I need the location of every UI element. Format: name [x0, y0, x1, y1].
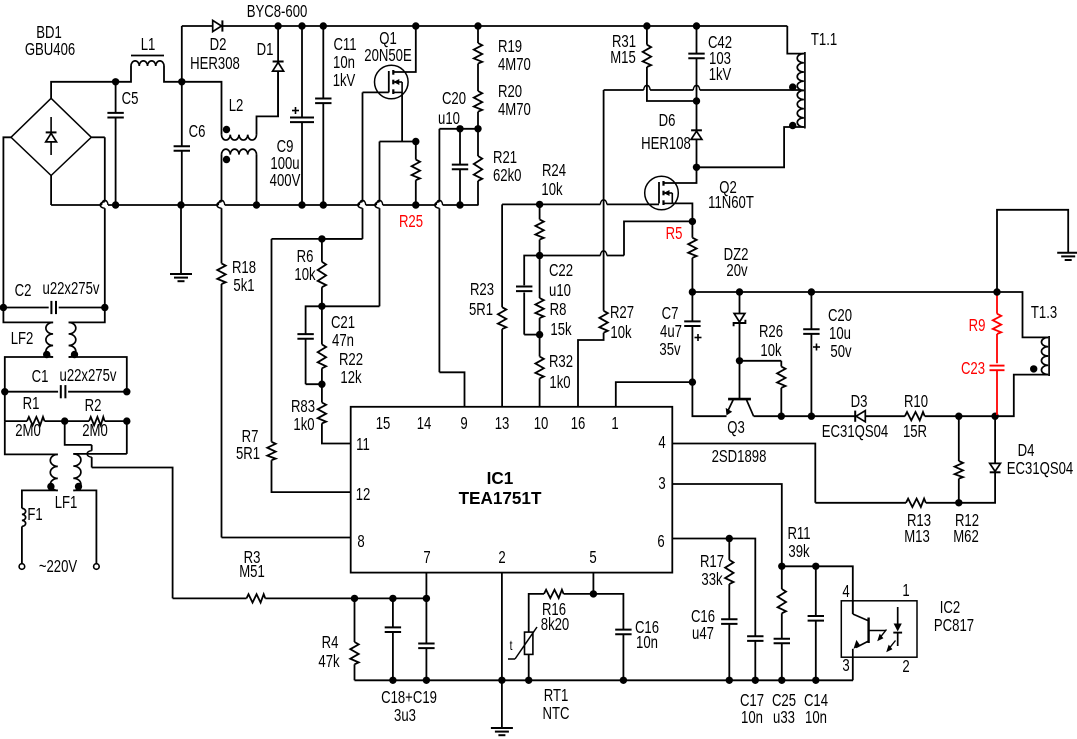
wire bridge AC right down (hops over bus)	[91, 137, 105, 307]
svg-text:C1: C1	[32, 367, 49, 386]
svg-text:5R1: 5R1	[469, 300, 493, 319]
svg-text:R10: R10	[904, 392, 928, 411]
label R11 39k	[787, 524, 810, 561]
node: R2 right	[123, 417, 130, 424]
resistor R6	[318, 239, 326, 306]
node: C17 bottom rail	[752, 677, 759, 684]
svg-text:EC31QS04: EC31QS04	[1007, 459, 1074, 478]
wire aux rail to secondary ground	[997, 210, 1068, 292]
capacitor C1	[5, 385, 127, 398]
resistor R13 line from pin4	[815, 499, 959, 507]
T1.3 polarity dot	[1030, 365, 1037, 372]
main negative bus	[51, 200, 478, 205]
node: C2 left	[0, 304, 7, 311]
L2 winding2 polarity dot	[223, 156, 230, 163]
svg-text:BYC8-600: BYC8-600	[247, 2, 308, 21]
svg-text:R9: R9	[969, 316, 986, 335]
node: R8/R32 junction	[536, 331, 543, 338]
node: Q1 drain on rail	[412, 22, 419, 29]
capacitor C19	[418, 598, 434, 680]
capacitor C25	[774, 639, 790, 681]
capacitor C16 u47	[721, 619, 737, 680]
sense line from Q2 source (hops R27 line)	[540, 221, 693, 255]
node: R25 on bus	[412, 201, 419, 208]
node: C1 left	[1, 388, 8, 395]
svg-text:10k: 10k	[760, 341, 781, 360]
svg-text:10u: 10u	[829, 324, 851, 343]
IC1 TEA1751T body	[351, 407, 673, 573]
capacitor C16 10n	[615, 630, 631, 681]
svg-text:D1: D1	[257, 40, 274, 59]
optocoupler IC2 PC817 body	[841, 601, 917, 657]
label IC2 PC817	[934, 598, 974, 635]
common mode choke LF2 left winding	[3, 308, 53, 392]
svg-text:10n: 10n	[741, 708, 763, 727]
label C1 u22x275v	[32, 366, 117, 386]
diode D1	[273, 26, 284, 116]
diode D4	[959, 416, 1001, 503]
node: R19 top on rail	[474, 22, 481, 29]
red capacitor C23	[990, 366, 1005, 415]
wire Q1 drain to top rail	[393, 26, 416, 72]
svg-text:R24: R24	[542, 161, 566, 180]
svg-text:20v: 20v	[726, 261, 747, 280]
svg-text:1: 1	[611, 414, 618, 433]
wire source node horizontal	[380, 141, 416, 143]
wire Q1 gate down (hops bus) to R6 line	[322, 92, 389, 239]
node: C1 right	[123, 388, 130, 395]
wire feedback node to opto	[782, 566, 853, 614]
node: D6/T1.1/Q2 drain	[693, 164, 700, 171]
svg-text:T1.3: T1.3	[1031, 303, 1057, 322]
wire Q1 source down to sense node	[401, 92, 403, 141]
svg-text:R11: R11	[787, 524, 810, 543]
node: pin5/R16/C16	[590, 590, 597, 597]
svg-text:16: 16	[571, 414, 586, 433]
svg-text:1k0: 1k0	[293, 415, 314, 434]
transformer T1.3 winding	[995, 292, 1049, 416]
label R19 4M70	[498, 37, 531, 74]
svg-text:M51: M51	[239, 562, 265, 581]
label C16 u47	[691, 607, 715, 643]
label R1 2M0	[15, 394, 41, 440]
label R27 10k	[610, 303, 634, 342]
label R26 10k	[759, 322, 783, 360]
wire bridge+ to L1/C5 node	[51, 82, 116, 99]
wire to IC pin 9 (hops bus)	[435, 129, 465, 407]
common mode choke LF1 right winding	[73, 421, 127, 563]
resistor R1	[5, 392, 65, 426]
capacitor C11	[315, 26, 331, 205]
label C21 47n	[331, 313, 355, 350]
svg-text:11: 11	[356, 435, 370, 454]
resistor R25	[412, 142, 420, 206]
diode D2 on top rail	[213, 20, 222, 31]
svg-text:3u3: 3u3	[394, 706, 416, 725]
label R12 M62	[953, 511, 979, 546]
label C42 103 1kV	[708, 33, 732, 84]
label D3 EC31QS04	[822, 392, 889, 441]
svg-text:R6: R6	[297, 247, 314, 266]
node: C11 on rail	[320, 22, 327, 29]
svg-text:10n: 10n	[805, 708, 827, 727]
node: R1/R2 center	[61, 417, 68, 424]
svg-text:4: 4	[658, 433, 666, 452]
svg-text:R22: R22	[339, 350, 363, 369]
svg-text:9: 9	[460, 414, 468, 433]
svg-text:D6: D6	[659, 111, 676, 130]
bridge rectifier BD1	[11, 98, 91, 175]
svg-text:R5: R5	[666, 224, 683, 243]
svg-text:C5: C5	[122, 89, 139, 108]
svg-text:39k: 39k	[788, 542, 809, 561]
label BD1 GBU406	[25, 23, 76, 59]
svg-text:u10: u10	[549, 281, 571, 300]
wire pin 7 and R3 output line	[425, 573, 427, 599]
svg-text:u33: u33	[773, 708, 795, 727]
label C25 u33	[772, 691, 796, 727]
resistor R11	[778, 566, 786, 638]
svg-text:8: 8	[357, 532, 365, 551]
transformer T1.1 primary windings	[697, 26, 805, 167]
label R7 5R1	[236, 427, 260, 463]
svg-text:HER308: HER308	[190, 54, 240, 73]
zener diode DZ2	[734, 292, 746, 361]
L2 winding1 polarity dot	[223, 126, 230, 133]
wire bus corner to R23/pin13	[501, 204, 503, 307]
node: C20 on bus	[456, 201, 463, 208]
ground under bus	[170, 205, 192, 281]
node: R17 top	[726, 535, 733, 542]
resistor R20	[474, 91, 482, 129]
svg-text:C7: C7	[662, 304, 679, 323]
wire pin 6 line	[672, 539, 755, 637]
svg-text:R1: R1	[23, 394, 40, 413]
svg-text:C20: C20	[442, 89, 466, 108]
Q2 gate line from bus corner	[502, 200, 659, 205]
node: DZ2/R26/Q3 base	[736, 357, 743, 364]
node: RT1 bottom	[525, 677, 532, 684]
node: Q1 source / R25	[412, 138, 419, 145]
svg-text:D3: D3	[851, 392, 868, 411]
wire T1.1 tap down through R27 to pin 16	[603, 90, 605, 311]
wire pin 2 down to ground	[501, 573, 503, 728]
node: bridge+/L1/C5	[112, 78, 119, 85]
node: C9 on rail	[298, 22, 305, 29]
svg-text:R26: R26	[759, 322, 783, 341]
svg-text:RT1: RT1	[544, 686, 569, 705]
label R24 10k	[541, 161, 566, 199]
capacitor C17	[747, 636, 763, 680]
label C2 u22x275v	[15, 279, 100, 300]
label R17 33k	[700, 552, 724, 589]
label C11 10n 1kV	[333, 35, 357, 90]
svg-text:L1: L1	[141, 35, 156, 54]
common mode choke LF1 left winding	[5, 421, 58, 508]
node: L1/C6/D2	[178, 78, 185, 85]
capacitor C20 10u 50v electrolytic	[803, 292, 820, 416]
label R2 2M0	[82, 396, 108, 440]
node: C6/ground on bus	[177, 201, 184, 208]
secondary ground	[1057, 252, 1077, 254]
LF1 left polarity dot	[47, 483, 54, 490]
svg-text:R27: R27	[610, 303, 634, 322]
resistor R16 and RT1 top line	[529, 590, 594, 632]
aux supply rail	[692, 291, 997, 293]
svg-text:15R: 15R	[903, 422, 927, 441]
svg-text:IC1: IC1	[487, 468, 514, 488]
svg-text:HER108: HER108	[641, 134, 691, 153]
wire IC pin 4 to R13	[672, 444, 815, 503]
svg-text:15k: 15k	[550, 320, 571, 339]
node: R12/R13 junction	[955, 499, 962, 506]
wire Q2 drain	[664, 167, 697, 183]
node: R5/C7 on aux rail	[689, 288, 696, 295]
svg-text:R20: R20	[498, 82, 522, 101]
node: pin2/ground	[498, 677, 505, 684]
svg-text:C6: C6	[189, 122, 206, 141]
svg-text:C18+C19: C18+C19	[381, 688, 437, 707]
node: R24/R8/C22/sense junction	[536, 252, 543, 259]
svg-text:L2: L2	[229, 96, 244, 115]
svg-text:10n: 10n	[333, 53, 355, 72]
node: C19/pin7	[423, 595, 430, 602]
svg-text:D2: D2	[210, 35, 227, 54]
svg-text:8k20: 8k20	[541, 615, 570, 634]
capacitor C20 u10	[452, 129, 468, 205]
node: pin3/R11/C14	[778, 563, 785, 570]
transistor Q2 MOSFET	[645, 176, 679, 210]
svg-text:C2: C2	[15, 281, 32, 300]
svg-text:NTC: NTC	[543, 704, 570, 723]
IC2 phototransistor	[853, 601, 886, 657]
svg-text:PC817: PC817	[934, 616, 974, 635]
label R4 47k	[318, 633, 339, 671]
node: C20 50v on aux rail	[808, 288, 815, 295]
wire R1R2 center tap to R3 (hops LF1 wire)	[65, 421, 173, 598]
node: R6 top / gate line	[318, 235, 325, 242]
svg-text:10k: 10k	[294, 265, 315, 284]
node: R10/R12	[955, 413, 962, 420]
inductor L2 winding 1	[182, 71, 278, 140]
label R31 M15	[610, 32, 636, 67]
node: R17 bottom rail	[726, 677, 733, 684]
svg-text:F1: F1	[27, 505, 42, 524]
diode D3	[856, 411, 865, 422]
node: R4 top	[351, 595, 358, 602]
svg-text:GBU406: GBU406	[25, 40, 76, 59]
node: C11 on bus	[320, 201, 327, 208]
svg-text:10: 10	[534, 414, 549, 433]
label C17 10n	[740, 691, 764, 727]
svg-text:12k: 12k	[340, 368, 361, 387]
svg-text:u22x275v: u22x275v	[60, 366, 117, 385]
label R83 1k0	[291, 397, 315, 434]
inductor L1	[116, 56, 182, 82]
label R3 M51	[239, 548, 265, 581]
wire pin 5 node	[592, 573, 594, 594]
svg-text:35v: 35v	[659, 340, 680, 359]
svg-text:R8: R8	[550, 300, 567, 319]
node: DZ2 on aux rail	[736, 288, 743, 295]
svg-text:C23: C23	[961, 359, 985, 378]
label C20 u10	[438, 89, 466, 128]
resistor R7	[267, 442, 350, 492]
svg-text:4M70: 4M70	[498, 55, 531, 74]
svg-text:33k: 33k	[701, 570, 722, 589]
svg-text:R18: R18	[232, 258, 256, 277]
svg-text:C11: C11	[333, 35, 356, 54]
signal ground rail	[355, 679, 854, 681]
label C14 10n	[804, 691, 828, 727]
capacitor C14	[808, 566, 824, 680]
T1.1 tap line to R27 (hops R31 and D6 columns)	[604, 85, 801, 90]
capacitor C21	[297, 306, 322, 384]
svg-text:u47: u47	[692, 624, 714, 643]
resistor R12	[955, 416, 963, 503]
capacitor C2	[3, 301, 104, 314]
svg-text:2: 2	[902, 657, 909, 676]
svg-text:IC2: IC2	[940, 598, 960, 617]
resistor R19	[474, 26, 482, 91]
svg-text:20N50E: 20N50E	[364, 46, 411, 65]
svg-text:1kV: 1kV	[333, 71, 356, 90]
svg-text:1k0: 1k0	[549, 373, 570, 392]
node: C19 bottom	[423, 677, 430, 684]
IC2 LED	[893, 607, 902, 646]
label R13 M13	[904, 511, 931, 546]
label R16 8k20	[541, 600, 570, 634]
resistor R10	[905, 412, 959, 420]
node: C7/pin1/Q3 emitter	[689, 378, 696, 385]
node: C25 bottom	[778, 677, 785, 684]
svg-text:R19: R19	[498, 37, 522, 56]
svg-text:400V: 400V	[270, 171, 301, 190]
svg-text:R21: R21	[493, 148, 517, 167]
label Q2 11N60T	[708, 178, 754, 212]
svg-text:M62: M62	[953, 527, 979, 546]
label R32 1k0	[549, 352, 573, 392]
resistor R32	[535, 335, 543, 407]
svg-text:5R1: 5R1	[236, 444, 260, 463]
wire C7 node down to Q3 emitter	[692, 382, 726, 416]
svg-text:1kV: 1kV	[709, 65, 732, 84]
svg-text:15: 15	[376, 414, 391, 433]
svg-text:LF2: LF2	[11, 329, 34, 348]
node: C23/D4/T1.3	[991, 413, 998, 420]
node: R26 bottom	[778, 413, 785, 420]
label R10 15R	[903, 392, 928, 441]
Q3 collector line to D3	[754, 415, 856, 417]
capacitor C6	[174, 82, 190, 205]
T1.1 polarity dot lower	[789, 122, 796, 129]
node: D1 cathode on rail	[274, 22, 281, 29]
svg-text:R25: R25	[399, 212, 423, 231]
node: R9 top on aux rail	[993, 288, 1000, 295]
wire L2 winding2 left to R18 (hops bus)	[221, 155, 223, 202]
svg-text:3: 3	[658, 474, 666, 493]
svg-text:t: t	[510, 637, 513, 653]
IC2 light arrows	[877, 630, 895, 653]
T1.1 polarity dot upper	[789, 83, 796, 90]
red damper R9	[993, 294, 1001, 364]
node: C5 on bus	[112, 201, 119, 208]
svg-text:R23: R23	[470, 280, 494, 299]
diode D6	[691, 101, 702, 167]
label DZ2 20v	[724, 245, 749, 280]
label D6 HER108	[641, 111, 691, 153]
capacitor C22	[516, 256, 540, 335]
svg-text:1: 1	[902, 581, 909, 600]
resistor R27	[578, 311, 608, 407]
wire R10 node to C23 node	[959, 415, 995, 417]
fuse F1	[22, 508, 26, 563]
svg-text:R4: R4	[322, 633, 339, 652]
svg-text:62k0: 62k0	[493, 166, 522, 185]
label C16 10n	[635, 618, 659, 652]
LF2 right polarity dot	[71, 351, 78, 358]
svg-text:R2: R2	[85, 396, 102, 415]
terminal ~220V left	[19, 564, 25, 570]
resistor R26	[740, 361, 786, 416]
node: C16 bottom	[620, 677, 627, 684]
wire D3 to R10	[865, 415, 905, 417]
transistor Q3 2SD1898	[726, 361, 754, 416]
svg-text:12: 12	[356, 485, 371, 504]
resistor R3	[173, 594, 427, 602]
wire source sense branch down (hops bus) to C21 node	[322, 142, 380, 307]
svg-text:4: 4	[842, 582, 850, 601]
node: C14 bottom	[812, 677, 819, 684]
svg-text:C22: C22	[549, 261, 573, 280]
svg-text:~220V: ~220V	[39, 557, 78, 576]
node: C18 bottom	[389, 677, 396, 684]
svg-text:R32: R32	[549, 352, 573, 371]
wire opto pin 3 to ground rail	[852, 657, 854, 680]
wire bridge AC left down	[3, 137, 11, 307]
wire gate line corner down to R7	[272, 239, 363, 442]
svg-text:D4: D4	[1018, 441, 1035, 460]
svg-text:50v: 50v	[830, 342, 851, 361]
svg-text:6: 6	[657, 532, 665, 551]
label C9 100u 400V	[270, 137, 301, 190]
wire R18 to IC pin 8	[222, 537, 351, 539]
label Q1 20N50E	[364, 29, 411, 65]
resistor R5 (red label)	[688, 221, 696, 292]
wire pin5 node to C16	[593, 594, 623, 629]
label D2 HER308	[190, 35, 240, 73]
svg-text:14: 14	[417, 414, 432, 433]
node: Q2 source / R5 / sense	[689, 218, 696, 225]
node: C9 on bus	[298, 201, 305, 208]
ground under pin 2	[491, 727, 513, 729]
svg-text:10k: 10k	[610, 323, 631, 342]
svg-text:R83: R83	[291, 397, 315, 416]
top rail	[182, 25, 788, 27]
resistor R31	[643, 26, 697, 101]
wire L1 node up to top rail	[181, 26, 183, 82]
node: C20 bottom	[808, 413, 815, 420]
svg-text:u10: u10	[438, 109, 460, 128]
capacitor C5	[107, 82, 123, 205]
node: R20/R21/C20 junction	[439, 125, 481, 132]
label R18 5k1	[232, 258, 256, 295]
thermistor RT1	[508, 627, 537, 680]
svg-text:Q3: Q3	[727, 418, 745, 437]
label R23 5R1	[469, 280, 494, 319]
svg-text:C21: C21	[331, 313, 355, 332]
svg-text:47k: 47k	[318, 652, 339, 671]
